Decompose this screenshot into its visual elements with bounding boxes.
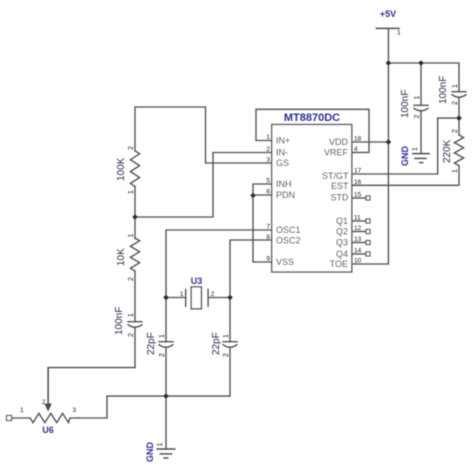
svg-text:1: 1	[223, 334, 230, 338]
svg-text:1: 1	[128, 234, 135, 238]
node St/GT RC	[456, 115, 462, 121]
svg-text:GS: GS	[276, 158, 289, 168]
svg-text:3: 3	[73, 407, 77, 414]
svg-text:1: 1	[452, 169, 459, 173]
svg-text:IN+: IN+	[276, 136, 290, 146]
svg-text:10K: 10K	[116, 248, 127, 266]
svg-text:16: 16	[354, 179, 362, 186]
svg-text:ST/GT: ST/GT	[322, 171, 349, 181]
svg-text:15: 15	[354, 192, 362, 199]
svg-text:GND: GND	[145, 442, 155, 463]
wire INH/PDN/VSS tie	[253, 184, 272, 262]
wire +5V stem down to TOE	[352, 28, 389, 264]
wire 100nF-A top lead	[420, 63, 422, 105]
svg-text:4: 4	[354, 146, 358, 153]
potentiometer U6	[30, 368, 79, 423]
svg-text:6: 6	[266, 189, 270, 196]
svg-text:12: 12	[354, 225, 362, 232]
node VDD	[386, 139, 392, 145]
node crystal left	[163, 295, 169, 301]
svg-text:2: 2	[223, 353, 230, 357]
U6 pin1 terminal square	[7, 416, 12, 421]
svg-text:INH: INH	[276, 179, 292, 189]
node bottom gnd	[163, 393, 169, 399]
svg-text:3: 3	[266, 157, 270, 164]
svg-text:13: 13	[354, 236, 362, 243]
resistor 220K	[454, 135, 463, 166]
svg-text:VDD: VDD	[329, 137, 349, 147]
wire VDD	[352, 141, 389, 143]
wire IN- from junction	[135, 153, 272, 218]
svg-text:EST: EST	[331, 181, 349, 191]
node +5V rail split	[386, 60, 392, 66]
svg-text:1: 1	[159, 334, 166, 338]
svg-text:VREF: VREF	[324, 148, 349, 158]
svg-text:7: 7	[266, 224, 270, 231]
wire 10K bottom to cap	[134, 271, 136, 322]
svg-text:1: 1	[128, 313, 135, 317]
wire OSC1 to crystal left	[166, 230, 272, 298]
wire gnd node down to GND	[165, 396, 167, 449]
capacitor 22pF (left)	[159, 342, 173, 348]
svg-text:100nF: 100nF	[400, 90, 411, 118]
svg-text:GND: GND	[400, 146, 410, 167]
U6 wiper arrow	[44, 404, 52, 412]
wire PDN stub	[253, 194, 272, 196]
svg-text:14: 14	[354, 248, 362, 255]
wire 220K top lead	[458, 118, 460, 135]
svg-text:1: 1	[412, 147, 419, 151]
wire 100nF-A bottom to GND	[420, 111, 422, 154]
wire crystal left lead	[166, 297, 186, 299]
wire ST/GT to node	[352, 118, 459, 174]
svg-text:VSS: VSS	[276, 257, 294, 267]
wire crystal right lead	[208, 297, 230, 299]
wire OSC2 to crystal right	[230, 240, 272, 298]
svg-text:Q4: Q4	[336, 249, 348, 259]
pin stub 11 Q1	[352, 220, 366, 222]
svg-text:11: 11	[354, 215, 361, 222]
svg-text:5: 5	[266, 178, 270, 185]
svg-text:2: 2	[159, 353, 166, 357]
svg-text:18: 18	[354, 136, 362, 143]
power +5V symbol	[376, 27, 399, 29]
svg-text:MT8870DC: MT8870DC	[284, 112, 340, 124]
svg-text:2: 2	[128, 146, 135, 150]
svg-text:OSC2: OSC2	[276, 236, 301, 246]
svg-text:1: 1	[414, 96, 421, 100]
svg-text:1: 1	[397, 30, 401, 37]
wire IN+ to VREF loop	[256, 109, 369, 152]
svg-text:Q1: Q1	[336, 216, 348, 226]
svg-text:1: 1	[266, 134, 270, 141]
svg-text:2: 2	[414, 115, 421, 119]
wire U6 pin1 lead	[12, 417, 31, 419]
wire 22pF-right top lead	[229, 298, 231, 342]
node crystal right	[227, 295, 233, 301]
svg-text:OSC1: OSC1	[276, 225, 301, 235]
svg-text:22pF: 22pF	[211, 332, 222, 355]
svg-text:2: 2	[211, 291, 215, 298]
svg-text:PDN: PDN	[276, 190, 295, 200]
svg-text:IN-: IN-	[276, 148, 288, 158]
wire 100K top loop to GS	[135, 107, 272, 163]
resistor R? 100K	[130, 151, 139, 187]
capacitor 22pF (right)	[223, 342, 237, 348]
svg-text:1: 1	[180, 291, 184, 298]
svg-text:1: 1	[128, 190, 135, 194]
svg-text:1: 1	[20, 407, 24, 414]
capacitor 100nF (right B)	[452, 92, 466, 98]
wire 100nF-B bottom to node	[458, 98, 460, 119]
wire crystal left node down to 22pF	[165, 298, 167, 342]
capacitor 100nF (right A)	[414, 105, 428, 111]
wire 22pF-right bottom corner to gnd node	[166, 348, 230, 397]
svg-text:+5V: +5V	[380, 9, 396, 19]
svg-text:100K: 100K	[116, 157, 127, 181]
wire 22pF-left bottom to gnd node	[165, 348, 167, 397]
svg-text:2: 2	[128, 277, 135, 281]
wire 100nF-left bottom to U6 wiper	[48, 328, 135, 404]
svg-text:10: 10	[354, 258, 362, 265]
pin stub 15 STD	[352, 197, 366, 199]
svg-text:8: 8	[266, 234, 270, 241]
svg-text:2: 2	[452, 129, 459, 133]
crystal U3	[186, 287, 208, 309]
unconnected pin squares STD Q1-Q4	[366, 196, 370, 256]
svg-text:17: 17	[354, 168, 362, 175]
node 100K/10K/IN-	[132, 214, 138, 220]
svg-text:Q2: Q2	[336, 227, 348, 237]
wire 10K top lead	[134, 217, 136, 239]
svg-text:2: 2	[42, 399, 46, 406]
IC U1 MT8870DC body	[272, 125, 352, 273]
svg-text:STD: STD	[331, 193, 350, 203]
svg-text:22pF: 22pF	[146, 332, 157, 355]
pin stub 13 Q3	[352, 242, 366, 244]
svg-text:U3: U3	[191, 276, 203, 286]
svg-text:220K: 220K	[442, 139, 453, 163]
svg-text:Q3: Q3	[336, 238, 348, 248]
svg-text:1: 1	[452, 84, 459, 88]
node cap A top	[418, 60, 424, 66]
svg-text:U6: U6	[42, 425, 54, 435]
svg-text:TOE: TOE	[330, 259, 348, 269]
wire 100K bottom to junction	[134, 186, 136, 217]
svg-text:2: 2	[266, 146, 270, 153]
wire U6 pin3 to gnd node	[79, 396, 167, 418]
capacitor 100nF (left)	[128, 322, 142, 328]
resistor R? 10K	[130, 238, 139, 271]
ground GND (right)	[413, 154, 429, 163]
IC pin numbers	[266, 134, 361, 265]
svg-text:9: 9	[266, 256, 270, 263]
IC pin names	[276, 136, 349, 270]
svg-text:2: 2	[452, 101, 459, 105]
pin stub 14 Q4	[352, 253, 366, 255]
svg-text:100nF: 100nF	[114, 307, 125, 335]
wire +5V rail right	[388, 63, 459, 92]
wire 220K bottom to EST	[352, 166, 459, 185]
node PDN tie	[250, 193, 256, 199]
ground GND (bottom)	[157, 449, 175, 458]
pin stub 12 Q2	[352, 231, 366, 233]
svg-text:1: 1	[157, 443, 164, 447]
svg-text:2: 2	[128, 333, 135, 337]
svg-text:100nF: 100nF	[438, 76, 449, 104]
